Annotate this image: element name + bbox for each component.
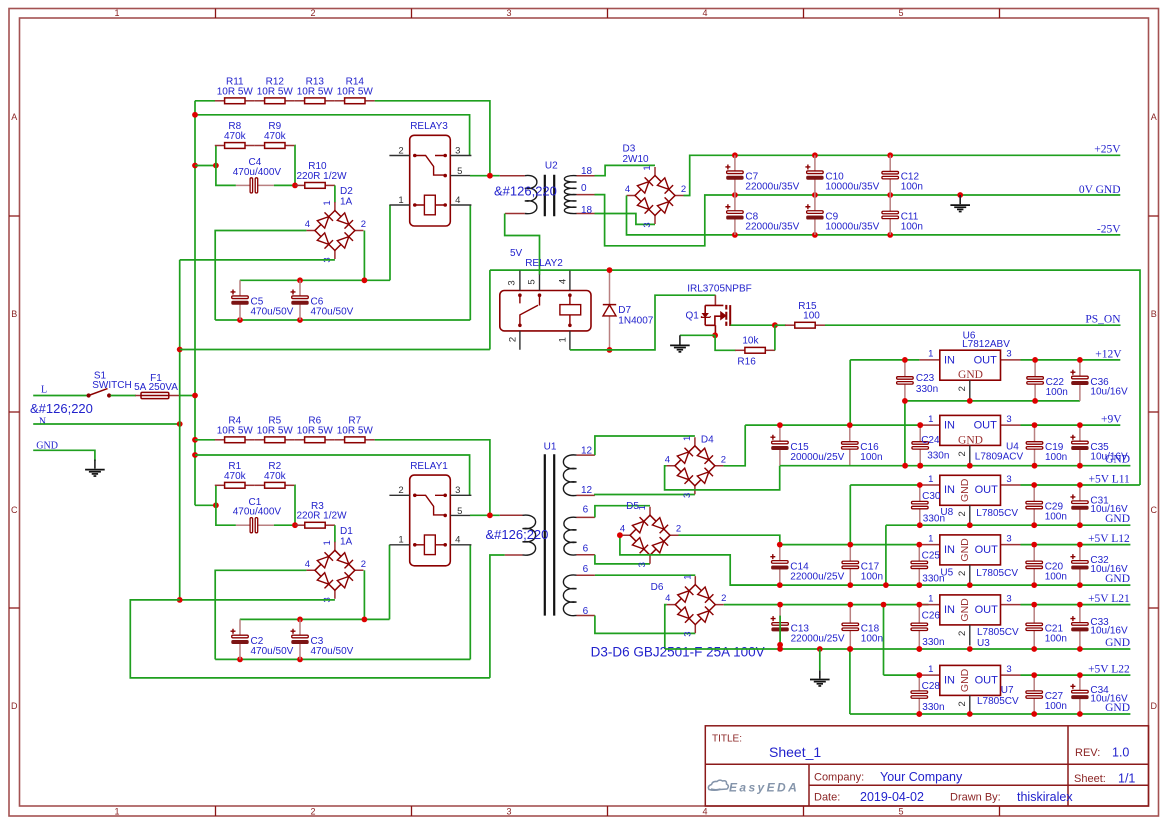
- diode D7: [603, 270, 616, 350]
- junction: [847, 646, 853, 652]
- svg-text:10R 5W: 10R 5W: [297, 86, 334, 97]
- svg-text:1: 1: [398, 195, 403, 206]
- svg-text:3: 3: [1006, 349, 1011, 360]
- svg-text:+5V L11: +5V L11: [1088, 473, 1130, 485]
- svg-text:B: B: [1151, 309, 1157, 319]
- junction: [777, 646, 783, 652]
- svg-text:&#126;220: &#126;220: [30, 401, 93, 416]
- bridge rectifier D6: [667, 576, 724, 633]
- svg-text:GND: GND: [958, 434, 983, 446]
- svg-text:330n: 330n: [922, 573, 944, 584]
- wire: [215, 231, 306, 321]
- ground: [85, 460, 105, 477]
- junction: [1031, 602, 1037, 608]
- svg-text:+12V: +12V: [1095, 348, 1122, 360]
- svg-text:2: 2: [957, 511, 968, 516]
- svg-text:6: 6: [583, 606, 589, 617]
- junction: [777, 422, 783, 428]
- relay RELAY3: [389, 135, 471, 226]
- resistor R16: [735, 347, 775, 353]
- svg-text:OUT: OUT: [975, 674, 999, 686]
- capacitor C27 100n: [1026, 675, 1043, 714]
- junction: [1077, 602, 1083, 608]
- voltage regulator U5 L7805CV: [919, 535, 1020, 586]
- svg-text:10R 5W: 10R 5W: [257, 86, 294, 97]
- junction: [817, 646, 823, 652]
- junction: [812, 232, 818, 238]
- capacitor C10: [805, 155, 823, 195]
- wire: [730, 584, 1130, 586]
- relay RELAY1: [389, 475, 471, 566]
- svg-text:U3: U3: [977, 638, 990, 649]
- svg-text:C24: C24: [921, 435, 940, 446]
- wire: [715, 335, 736, 350]
- svg-text:+9V: +9V: [1101, 414, 1122, 426]
- svg-text:D: D: [11, 701, 18, 711]
- wire: [1021, 674, 1131, 676]
- junction: [1031, 482, 1037, 488]
- wire: [195, 504, 216, 506]
- wire: [724, 604, 929, 606]
- svg-text:2: 2: [361, 219, 366, 230]
- junction: [916, 602, 922, 608]
- junction: [917, 463, 923, 469]
- svg-text:22000u/35V: 22000u/35V: [745, 221, 799, 232]
- junction: [617, 532, 623, 538]
- junction: [917, 522, 923, 528]
- wire: [850, 713, 1131, 715]
- svg-text:10R 5W: 10R 5W: [217, 425, 254, 436]
- junction: [812, 152, 818, 158]
- junction: [772, 322, 778, 328]
- svg-text:100n: 100n: [1045, 512, 1067, 523]
- svg-text:20000u/25V: 20000u/25V: [790, 452, 844, 463]
- svg-text:A: A: [11, 112, 17, 122]
- capacitor C14: [770, 545, 788, 586]
- svg-text:100n: 100n: [1045, 633, 1067, 644]
- svg-text:D3-D6 GBJ2501-F 25A 100V: D3-D6 GBJ2501-F 25A 100V: [591, 645, 765, 660]
- junction: [887, 192, 893, 198]
- svg-text:1A: 1A: [340, 197, 353, 208]
- bridge rectifier D3: [627, 167, 684, 224]
- svg-text:2: 2: [398, 485, 403, 496]
- junction: [1077, 711, 1083, 717]
- svg-text:C: C: [11, 505, 18, 515]
- wire: [375, 440, 490, 516]
- wire: [216, 146, 236, 186]
- svg-text:1: 1: [398, 535, 403, 546]
- svg-text:GND: GND: [1105, 637, 1130, 649]
- junction: [812, 192, 818, 198]
- capacitor C16: [842, 425, 859, 466]
- wire: [680, 334, 715, 336]
- svg-text:2: 2: [310, 8, 315, 18]
- junction: [917, 463, 923, 469]
- bridge rectifier D5: [622, 507, 679, 564]
- voltage regulator U4 L7809ACV: [919, 415, 1020, 466]
- svg-text:10R 5W: 10R 5W: [257, 425, 294, 436]
- wire: [850, 484, 919, 486]
- wire -25V rail: [735, 234, 1120, 236]
- svg-text:0: 0: [581, 183, 587, 194]
- svg-text:3: 3: [506, 8, 511, 18]
- junction: [1032, 422, 1038, 428]
- junction: [967, 711, 973, 717]
- junction: [881, 602, 887, 608]
- svg-text:22000u/25V: 22000u/25V: [791, 633, 845, 644]
- junction: [292, 522, 298, 528]
- capacitor C5: [231, 280, 249, 320]
- svg-text:3: 3: [1006, 593, 1011, 604]
- resistor R1: [215, 482, 255, 488]
- svg-text:N: N: [39, 417, 46, 428]
- svg-text:4: 4: [558, 279, 569, 284]
- svg-text:OUT: OUT: [975, 544, 999, 556]
- svg-text:IN: IN: [944, 484, 955, 496]
- svg-text:3: 3: [682, 493, 693, 498]
- svg-text:L7809ACV: L7809ACV: [975, 451, 1024, 462]
- svg-text:220R 1/2W: 220R 1/2W: [296, 171, 347, 182]
- junction: [777, 582, 783, 588]
- svg-text:C28: C28: [922, 681, 941, 692]
- svg-text:2: 2: [398, 145, 403, 156]
- svg-text:&#126;220: &#126;220: [494, 183, 557, 198]
- svg-text:OUT: OUT: [975, 604, 999, 616]
- svg-text:IRL3705NPBF: IRL3705NPBF: [687, 284, 751, 295]
- svg-text:470u/400V: 470u/400V: [233, 507, 282, 518]
- svg-text:5V: 5V: [510, 248, 523, 259]
- capacitor C22 100n: [1027, 360, 1044, 401]
- svg-text:10k: 10k: [742, 335, 759, 346]
- wire: [595, 555, 650, 564]
- wire: [774, 325, 776, 350]
- svg-text:4: 4: [455, 535, 460, 546]
- capacitor C11: [882, 195, 899, 235]
- svg-text:18: 18: [581, 166, 593, 177]
- capacitor C32: [1070, 545, 1088, 586]
- capacitor C6: [291, 280, 309, 320]
- junction: [847, 602, 853, 608]
- svg-text:REV:: REV:: [1075, 747, 1100, 759]
- junction: [1031, 672, 1037, 678]
- svg-text:IN: IN: [944, 420, 955, 432]
- svg-text:Q1: Q1: [686, 311, 700, 322]
- svg-text:100n: 100n: [860, 452, 882, 463]
- junction: [917, 422, 923, 428]
- wire: [130, 600, 490, 678]
- svg-text:2: 2: [957, 701, 968, 706]
- svg-text:D2: D2: [340, 186, 353, 197]
- wire: [195, 455, 470, 496]
- junction: [777, 602, 783, 608]
- wire: [904, 401, 906, 466]
- svg-text:1: 1: [114, 8, 119, 18]
- wire: [745, 424, 919, 426]
- svg-text:5: 5: [898, 806, 903, 816]
- wire: [334, 185, 336, 202]
- svg-text:220R 1/2W: 220R 1/2W: [296, 511, 347, 522]
- junction: [967, 463, 973, 469]
- junction: [916, 711, 922, 717]
- capacitor C4: [236, 178, 274, 193]
- wire: [195, 115, 470, 156]
- junction: [887, 152, 893, 158]
- wire: [240, 279, 390, 281]
- svg-text:330n: 330n: [916, 384, 938, 395]
- svg-text:100n: 100n: [1045, 452, 1067, 463]
- svg-text:6: 6: [583, 544, 589, 555]
- wire: [33, 423, 180, 425]
- svg-text:GND: GND: [1105, 513, 1130, 525]
- junction: [847, 422, 853, 428]
- svg-text:3: 3: [507, 280, 518, 285]
- svg-text:470u/50V: 470u/50V: [311, 307, 354, 318]
- junction: [177, 347, 183, 353]
- ground: [810, 670, 830, 686]
- svg-text:22000u/25V: 22000u/25V: [790, 571, 844, 582]
- svg-text:3: 3: [682, 631, 693, 636]
- junction: [1032, 398, 1038, 404]
- junction: [777, 542, 783, 548]
- wire: [849, 360, 851, 425]
- svg-text:&#126;220: &#126;220: [486, 527, 549, 542]
- wire: [905, 400, 1080, 402]
- svg-text:SWITCH: SWITCH: [92, 380, 131, 391]
- capacitor C15: [770, 425, 788, 466]
- svg-text:IN: IN: [944, 544, 955, 556]
- svg-text:D7: D7: [618, 305, 631, 316]
- bridge rectifier D1: [306, 542, 363, 599]
- junction: [237, 657, 243, 663]
- junction: [297, 657, 303, 663]
- junction: [192, 393, 198, 399]
- junction: [1077, 542, 1083, 548]
- wire: [731, 324, 775, 326]
- wire: [595, 195, 735, 246]
- junction: [916, 582, 922, 588]
- wire: [215, 658, 470, 660]
- wire: [849, 485, 851, 545]
- wire: [33, 450, 95, 461]
- svg-text:C: C: [1150, 505, 1157, 515]
- wire: [194, 101, 196, 506]
- junction: [1077, 522, 1083, 528]
- junction: [732, 232, 738, 238]
- svg-text:10R 5W: 10R 5W: [217, 86, 254, 97]
- wire: [111, 395, 137, 397]
- junction: [712, 332, 718, 338]
- capacitor C13: [771, 605, 789, 649]
- junction: [1077, 357, 1083, 363]
- svg-text:330n: 330n: [923, 513, 945, 524]
- resistor R5: [255, 437, 295, 443]
- capacitor C31: [1070, 485, 1088, 525]
- wire: [595, 574, 695, 576]
- resistor R14: [335, 98, 375, 104]
- junction: [292, 183, 298, 189]
- svg-text:3: 3: [1006, 533, 1011, 544]
- capacitor C34: [1070, 675, 1088, 714]
- svg-text:470k: 470k: [264, 471, 287, 482]
- svg-text:+5V L12: +5V L12: [1088, 533, 1130, 545]
- svg-text:U7: U7: [1001, 685, 1014, 696]
- svg-text:1: 1: [928, 349, 933, 360]
- svg-text:1: 1: [928, 533, 933, 544]
- svg-text:1N4007: 1N4007: [618, 316, 653, 327]
- wire: [570, 295, 716, 350]
- junction: [847, 582, 853, 588]
- svg-text:3: 3: [455, 145, 460, 156]
- relay RELAY2: [500, 271, 591, 350]
- svg-text:1: 1: [682, 574, 693, 579]
- junction: [967, 582, 973, 588]
- wire: [489, 270, 491, 349]
- svg-text:3: 3: [1006, 474, 1011, 485]
- junction: [732, 152, 738, 158]
- junction: [902, 463, 908, 469]
- svg-text:RELAY1: RELAY1: [410, 461, 448, 472]
- voltage regulator U3 L7805CV: [919, 595, 1020, 646]
- svg-text:RELAY2: RELAY2: [525, 258, 563, 269]
- wire: [883, 605, 885, 676]
- svg-text:10R 5W: 10R 5W: [337, 86, 374, 97]
- wire: [294, 146, 296, 186]
- svg-text:1A: 1A: [340, 536, 353, 547]
- resistor R6: [295, 437, 335, 443]
- svg-text:100n: 100n: [901, 221, 923, 232]
- transformer U2: [500, 176, 525, 214]
- wire: [180, 349, 490, 351]
- capacitor C33: [1070, 605, 1088, 649]
- junction: [297, 617, 303, 623]
- svg-text:Drawn By:: Drawn By:: [950, 792, 1001, 804]
- junction: [192, 163, 198, 169]
- svg-text:100n: 100n: [861, 571, 883, 582]
- svg-text:470u/50V: 470u/50V: [311, 646, 354, 657]
- svg-text:1: 1: [557, 337, 568, 342]
- svg-text:4: 4: [625, 184, 630, 195]
- wire: [780, 465, 1131, 467]
- capacitor C1: [236, 518, 274, 533]
- resistor R9: [255, 143, 295, 149]
- svg-text:1: 1: [322, 200, 333, 205]
- svg-text:12: 12: [581, 445, 593, 456]
- svg-text:470u/400V: 470u/400V: [233, 167, 282, 178]
- switch S1: [87, 389, 112, 398]
- wire: [679, 535, 780, 544]
- svg-text:EasyEDA: EasyEDA: [729, 781, 799, 795]
- junction: [1032, 463, 1038, 469]
- svg-text:PS_ON: PS_ON: [1085, 313, 1121, 325]
- wire: [886, 524, 1131, 526]
- junction: [967, 646, 973, 652]
- junction: [177, 421, 183, 427]
- wire: [723, 425, 745, 466]
- svg-text:470u/50V: 470u/50V: [251, 646, 294, 657]
- svg-text:GND: GND: [958, 369, 983, 381]
- resistor R8: [215, 143, 255, 149]
- junction: [1031, 582, 1037, 588]
- svg-text:5: 5: [457, 506, 462, 517]
- wire: [780, 544, 920, 546]
- svg-text:470k: 470k: [224, 471, 247, 482]
- svg-text:L7805CV: L7805CV: [977, 696, 1019, 707]
- junction: [607, 267, 613, 273]
- svg-text:18: 18: [581, 205, 593, 216]
- junction: [957, 192, 963, 198]
- transformer U1: [500, 515, 523, 555]
- junction: [297, 277, 303, 283]
- wire: [195, 439, 215, 441]
- svg-text:D3: D3: [623, 144, 636, 155]
- svg-text:10R 5W: 10R 5W: [297, 425, 334, 436]
- svg-text:Company:: Company:: [814, 772, 864, 784]
- capacitor C2: [231, 619, 249, 659]
- svg-text:3: 3: [642, 222, 653, 227]
- junction: [1031, 522, 1037, 528]
- wire: [1021, 424, 1121, 426]
- svg-text:10u/16V: 10u/16V: [1090, 626, 1128, 637]
- junction: [916, 646, 922, 652]
- junction: [847, 646, 853, 652]
- svg-text:2: 2: [681, 184, 686, 195]
- wire: [215, 570, 306, 659]
- bridge rectifier D4: [666, 437, 723, 494]
- junction: [902, 398, 908, 404]
- wire: [240, 618, 390, 620]
- junction: [902, 357, 908, 363]
- junction: [967, 398, 973, 404]
- svg-text:10000u/35V: 10000u/35V: [825, 221, 879, 232]
- wire: [620, 535, 780, 585]
- title block: [705, 726, 1148, 806]
- svg-text:Date:: Date:: [814, 792, 840, 804]
- svg-text:2: 2: [721, 454, 726, 465]
- svg-text:4: 4: [665, 454, 670, 465]
- wire: [850, 359, 919, 361]
- junction: [883, 582, 889, 588]
- ground: [950, 195, 970, 212]
- svg-text:Sheet:: Sheet:: [1074, 773, 1106, 785]
- capacitor C36: [1070, 360, 1088, 401]
- svg-text:100n: 100n: [1045, 701, 1067, 712]
- wire: [595, 214, 656, 225]
- svg-text:1/1: 1/1: [1118, 771, 1135, 785]
- wire: [849, 649, 851, 714]
- junction: [732, 192, 738, 198]
- svg-text:2: 2: [957, 571, 968, 576]
- svg-text:L: L: [41, 385, 47, 396]
- junction: [1077, 672, 1083, 678]
- junction: [917, 422, 923, 428]
- wire: [33, 395, 88, 397]
- capacitor C26 330n: [911, 605, 928, 649]
- svg-text:OUT: OUT: [974, 355, 998, 367]
- svg-text:IN: IN: [944, 355, 955, 367]
- svg-text:A: A: [1151, 112, 1157, 122]
- wire: [665, 466, 780, 490]
- voltage regulator U7 L7805CV: [919, 665, 1020, 716]
- svg-text:4: 4: [455, 195, 460, 206]
- svg-text:D6: D6: [651, 582, 664, 593]
- capacitor C20 100n: [1026, 545, 1043, 586]
- svg-text:U1: U1: [544, 441, 557, 452]
- wire: [363, 231, 365, 281]
- svg-text:Sheet_1: Sheet_1: [769, 744, 821, 760]
- wire: [216, 485, 236, 525]
- wire: [294, 485, 296, 525]
- svg-text:2W10: 2W10: [623, 154, 650, 165]
